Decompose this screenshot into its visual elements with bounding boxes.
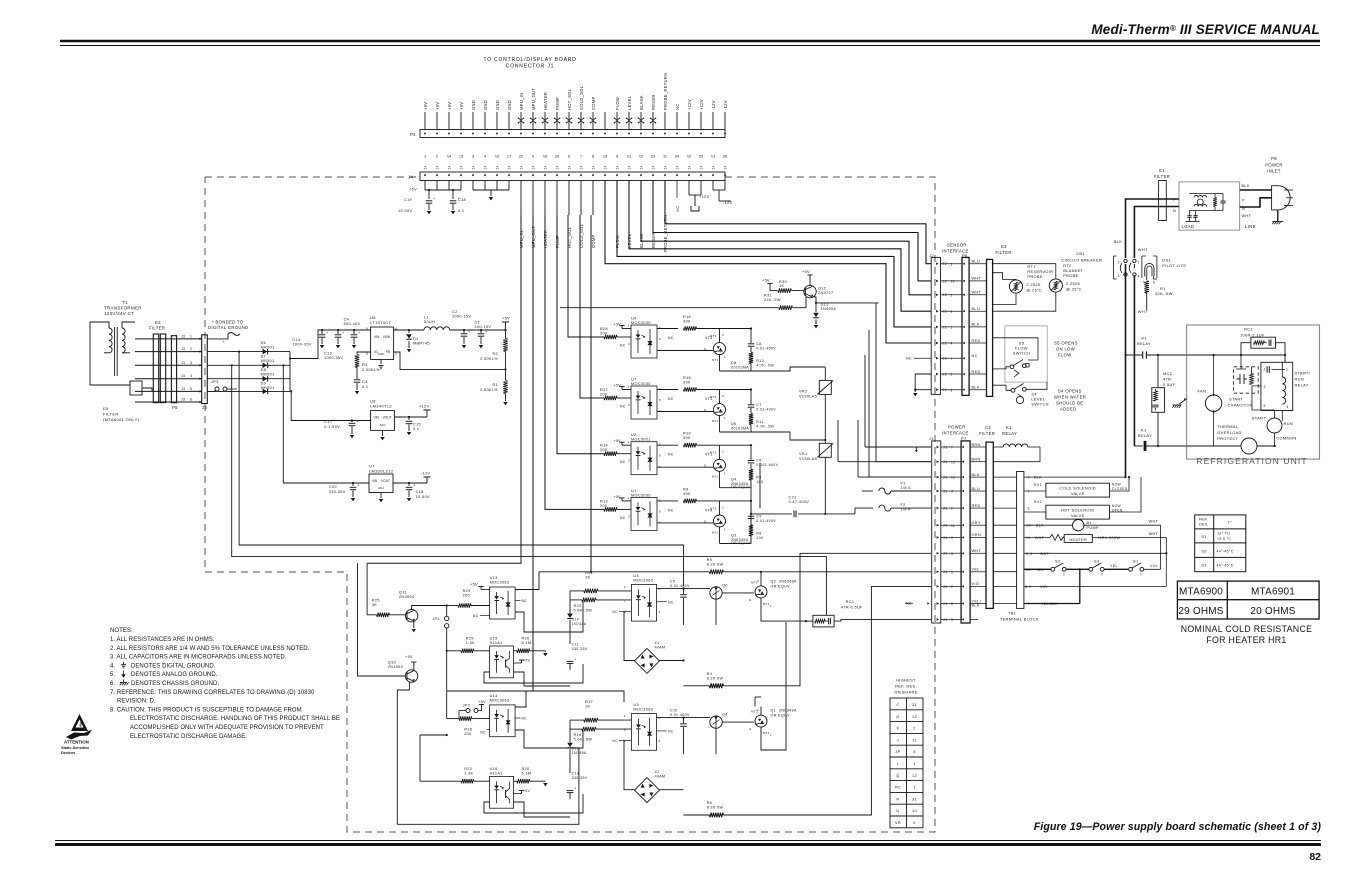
svg-text:FB: FB	[386, 350, 390, 354]
svg-text:+12V: +12V	[687, 99, 692, 110]
TB1 row 3,4 WHT	[993, 552, 1016, 554]
svg-text:NC: NC	[675, 103, 680, 110]
J3 pin 3 wire	[135, 364, 202, 366]
svg-text:12: 12	[912, 773, 917, 778]
svg-text:GND: GND	[495, 100, 500, 110]
connector P5	[171, 336, 176, 403]
svg-text:MT1: MT1	[763, 602, 770, 606]
svg-text:200: 200	[600, 448, 607, 452]
svg-text:LEVEL: LEVEL	[627, 95, 632, 110]
connector P2 pin 1 lead	[424, 112, 426, 130]
svg-text:J4: J4	[532, 165, 536, 169]
svg-text:C16: C16	[416, 490, 424, 494]
svg-text:ON LOW: ON LOW	[1056, 347, 1075, 352]
svg-text:K1: K1	[1141, 428, 1146, 433]
svg-text:FILTER: FILTER	[103, 412, 119, 417]
svg-text:FLOW: FLOW	[615, 97, 620, 110]
svg-text:+5V: +5V	[447, 102, 452, 110]
-12V pair from J4	[712, 181, 714, 191]
svg-text:J1: J1	[943, 524, 948, 528]
svg-text:6: 6	[1153, 281, 1155, 285]
svg-text:NC: NC	[906, 357, 912, 361]
svg-text:J1: J1	[943, 602, 948, 606]
svg-text:2.252K: 2.252K	[1066, 281, 1080, 286]
svg-text:11: 11	[912, 737, 917, 742]
snubber RC2	[1251, 337, 1276, 348]
svg-text:NC: NC	[473, 614, 479, 618]
svg-text:R9: R9	[683, 487, 689, 491]
svg-text:D8: D8	[731, 361, 736, 365]
svg-text:H11A1: H11A1	[490, 641, 503, 645]
svg-text:9: 9	[616, 155, 618, 159]
svg-text:SV1: SV1	[1034, 483, 1042, 487]
svg-text:44°-45°C: 44°-45°C	[1217, 564, 1234, 568]
connector P2 pin 25 lead	[712, 112, 714, 130]
svg-text:+12V: +12V	[699, 195, 709, 199]
connector P2 pin 12 lead	[556, 112, 558, 130]
svg-text:390: 390	[683, 320, 690, 324]
connector J4 pin 16 arrow	[604, 174, 606, 176]
svg-text:3: 3	[913, 749, 916, 754]
svg-text:J4: J4	[520, 165, 524, 169]
svg-text:6: 6	[659, 587, 661, 591]
svg-text:+: +	[574, 657, 576, 661]
svg-text:INLET: INLET	[1267, 169, 1281, 174]
svg-text:K1: K1	[1006, 425, 1012, 430]
svg-text:HOT SOLENOID: HOT SOLENOID	[1061, 508, 1095, 513]
svg-text:3: 3	[628, 403, 630, 407]
RC1 wiring	[806, 620, 813, 622]
svg-text:1K: 1K	[585, 575, 590, 579]
connector P2 pin 21 lead	[664, 112, 666, 130]
svg-text:BLK: BLK	[972, 323, 980, 327]
svg-text:R19: R19	[574, 733, 582, 737]
svg-text:+: +	[433, 197, 435, 201]
svg-text:-12V: -12V	[421, 472, 431, 476]
svg-text:3: 3	[190, 361, 192, 365]
connector J4 pin 8 arrow	[508, 174, 510, 176]
svg-text:SWITCH: SWITCH	[1031, 402, 1048, 407]
svg-text:Static-Sensitive: Static-Sensitive	[61, 746, 89, 750]
svg-text:R3: R3	[362, 363, 368, 367]
svg-text:1/8 A: 1/8 A	[901, 486, 912, 490]
svg-text:NOMINAL COLD RESISTANCE: NOMINAL COLD RESISTANCE	[1181, 624, 1313, 634]
svg-text:* BONDED TO: * BONDED TO	[212, 320, 244, 325]
svg-text:330-35V: 330-35V	[572, 776, 588, 780]
connector J4 pin 18 arrow	[628, 174, 630, 176]
svg-text:VR1: VR1	[799, 452, 807, 456]
svg-text:NC: NC	[612, 739, 618, 743]
U15 +5V pin	[521, 660, 523, 663]
svg-text:BLK: BLK	[972, 473, 980, 477]
feedback wire FB	[394, 352, 506, 369]
svg-text:OR EQUV: OR EQUV	[771, 584, 791, 588]
connector P2 pin 14 lead	[580, 112, 582, 130]
svg-text:T1: T1	[122, 300, 128, 305]
svg-text:J1: J1	[943, 489, 948, 493]
svg-text:200: 200	[464, 732, 471, 736]
connector J4 pin 12 arrow	[556, 174, 558, 176]
svg-text:1: 1	[951, 326, 953, 330]
svg-text:3: 3	[628, 459, 630, 463]
connector P2 pin 23 lead	[688, 112, 690, 130]
svg-text:JP1: JP1	[432, 617, 440, 621]
svg-text:120V/24V CT: 120V/24V CT	[104, 311, 134, 316]
svg-text:200: 200	[600, 393, 607, 397]
hot solenoid valve	[1046, 505, 1110, 519]
wire J2 6 J2 8 common ground	[915, 374, 931, 390]
U7 ADJ ground	[380, 493, 382, 499]
svg-text:VIN: VIN	[374, 335, 380, 339]
svg-text:50UH: 50UH	[424, 320, 435, 324]
svg-text:J4: J4	[436, 165, 440, 169]
svg-text:HEATER: HEATER	[543, 92, 548, 110]
svg-text:VR: VR	[895, 820, 901, 825]
svg-text:+5V: +5V	[478, 700, 486, 704]
svg-text:-12V: -12V	[723, 201, 733, 205]
svg-text:J3: J3	[181, 361, 185, 365]
wire mid rail B	[239, 352, 683, 586]
level switch S4 wiring	[993, 385, 1011, 390]
svg-text:+5V: +5V	[802, 270, 810, 274]
terminal block TB1	[1017, 472, 1024, 609]
J3 pin 1 wire	[135, 338, 202, 340]
connector J4 pin 6 arrow	[484, 174, 486, 176]
svg-text:3,4: 3,4	[1026, 552, 1032, 556]
svg-text:J4: J4	[724, 165, 728, 169]
svg-text:+5V: +5V	[614, 495, 622, 499]
svg-text:NC: NC	[620, 460, 626, 464]
svg-text:RED: RED	[972, 370, 981, 374]
connector J4	[420, 172, 725, 181]
connector J4 pin 13 arrow	[568, 174, 570, 176]
wire stair FLOW to J2	[617, 181, 931, 327]
svg-text:R26: R26	[522, 637, 530, 641]
note symbol chassis ground	[123, 680, 125, 683]
svg-text:+5V: +5V	[614, 384, 622, 388]
svg-text:B1: B1	[1087, 521, 1092, 525]
svg-text:2N6348A: 2N6348A	[779, 709, 797, 713]
J3 pin 4 wire	[135, 378, 202, 380]
wire stair BLANK to J2	[641, 181, 931, 295]
wire stair pin 19 to J2	[605, 181, 931, 344]
J2 pin J2 4	[936, 342, 938, 345]
svg-text:WHT: WHT	[1040, 552, 1050, 556]
thermistor RT1 wiring	[993, 273, 1016, 280]
flow switch S5 enclosure	[1005, 326, 1047, 382]
svg-text:V130LA5: V130LA5	[799, 457, 817, 461]
svg-text:MR501: MR501	[261, 359, 275, 363]
relay K1 contact top	[1126, 354, 1143, 356]
svg-text:2: 2	[757, 579, 759, 583]
connector J4 pin 2 arrow	[436, 174, 438, 176]
svg-text:WHEN WATER: WHEN WATER	[1054, 395, 1086, 400]
svg-text:4: 4	[659, 465, 661, 469]
svg-text:TERMINAL BLOCK: TERMINAL BLOCK	[1000, 617, 1039, 622]
svg-text:SHOULD BE: SHOULD BE	[1056, 401, 1083, 406]
svg-text:R21: R21	[585, 571, 593, 575]
svg-text:D8: D8	[261, 368, 267, 372]
connector P2 pin 13 lead	[568, 112, 570, 130]
svg-text:RUN: RUN	[1284, 421, 1293, 426]
connector J4 pin 19 arrow	[640, 174, 642, 176]
svg-text:D7: D7	[261, 355, 267, 359]
svg-text:2: 2	[951, 585, 953, 589]
svg-text:NC: NC	[522, 599, 528, 603]
connector J4 pin 1 arrow	[424, 174, 426, 176]
svg-text:RELAY: RELAY	[1002, 431, 1017, 436]
svg-text:2.00K1%: 2.00K1%	[480, 388, 498, 392]
svg-text:Q: Q	[896, 773, 899, 778]
svg-text:6: 6	[659, 326, 661, 330]
svg-text:0.1: 0.1	[362, 385, 368, 389]
svg-text:VSW: VSW	[383, 335, 390, 339]
svg-text:C4: C4	[985, 425, 991, 430]
J1 pin J1 4	[937, 490, 939, 493]
U14 output wires	[515, 691, 624, 707]
svg-text:4.: 4.	[110, 663, 115, 669]
svg-text:10-50V: 10-50V	[398, 209, 412, 213]
filter E1	[1159, 181, 1167, 221]
wire bus MPU_IN	[367, 215, 521, 563]
header rule thin	[60, 45, 1320, 47]
wire stair PROBE_RETURN to J2	[665, 181, 931, 264]
svg-text:MOC3030: MOC3030	[631, 321, 651, 325]
svg-text:R4: R4	[707, 672, 712, 676]
svg-text:44°-45°C: 44°-45°C	[1217, 549, 1234, 553]
svg-text:12: 12	[951, 476, 955, 480]
svg-text:2: 2	[913, 726, 916, 731]
wire Q12 emitter to J1 10	[876, 302, 878, 304]
bidirectional arrow symbol	[518, 118, 523, 123]
connector P2 pin 20 lead	[652, 112, 654, 130]
svg-text:RESER: RESER	[651, 232, 656, 248]
svg-text:C20: C20	[329, 485, 337, 489]
svg-text:NC: NC	[668, 453, 674, 457]
transistor Q10	[405, 670, 417, 682]
svg-text:3: 3	[628, 514, 630, 518]
connector P2 pin 8 lead	[508, 112, 510, 130]
svg-text:U2: U2	[631, 433, 637, 437]
connector P2 pin 6 lead	[484, 112, 486, 130]
svg-text:J1: J1	[943, 445, 948, 449]
resistor R1	[503, 381, 507, 394]
wire bus HOT_SOL	[568, 215, 604, 337]
wire row2 R6 to right	[684, 814, 710, 816]
U13 output wires	[515, 572, 539, 590]
svg-text:J3: J3	[181, 387, 185, 391]
bidirectional arrow symbol	[566, 118, 571, 123]
refrigeration chassis ground	[1179, 399, 1187, 404]
svg-text:4: 4	[659, 739, 661, 743]
pump motor B1	[1073, 520, 1084, 531]
svg-text:3: 3	[628, 342, 630, 346]
svg-text:U7: U7	[631, 378, 637, 382]
svg-text:WHT: WHT	[1149, 520, 1159, 524]
power inlet chassis ground	[1277, 210, 1279, 221]
svg-text:0.01-400V: 0.01-400V	[670, 584, 690, 588]
svg-text:C11: C11	[572, 642, 579, 646]
svg-text:S4 OPENS: S4 OPENS	[1058, 389, 1082, 394]
svg-text:J4: J4	[676, 165, 680, 169]
wire relay pins to start	[1252, 409, 1275, 411]
svg-text:NC: NC	[620, 344, 626, 348]
connector P2 pin 15 lead	[592, 112, 594, 130]
svg-text:R24: R24	[463, 589, 471, 593]
svg-text:J3: J3	[181, 398, 185, 402]
svg-text:MT2: MT2	[710, 395, 717, 399]
svg-text:+: +	[468, 330, 470, 334]
svg-text:U16: U16	[490, 767, 498, 771]
TB1 row 8,9 VIO	[993, 585, 1016, 587]
svg-text:1: 1	[724, 472, 726, 476]
svg-text:J4: J4	[484, 165, 488, 169]
wire CB1 to K1 contacts	[1125, 264, 1127, 477]
connector J4 pin 24 arrow	[700, 174, 702, 176]
svg-text:J1: J1	[943, 476, 948, 480]
thermal overload protector	[1241, 438, 1257, 454]
svg-text:E2: E2	[155, 320, 161, 325]
svg-text:1: 1	[628, 385, 630, 389]
svg-text:0.01-400V: 0.01-400V	[670, 713, 690, 717]
svg-text:R16: R16	[683, 315, 691, 319]
svg-text:1: 1	[1138, 261, 1140, 265]
svg-text:82: 82	[1309, 851, 1321, 863]
svg-text:MC1: MC1	[1163, 371, 1172, 376]
svg-text:+: +	[326, 331, 328, 335]
bridge Z1 wiring	[624, 611, 635, 660]
svg-text:22: 22	[519, 155, 523, 159]
svg-text:J2: J2	[943, 388, 948, 392]
svg-text:MPU_OUT: MPU_OUT	[531, 88, 536, 110]
wire right loop WHT	[1160, 525, 1162, 569]
svg-text:P7: P7	[961, 436, 967, 441]
svg-text:D1: D1	[413, 337, 419, 341]
svg-text:LT1074CT: LT1074CT	[370, 320, 392, 325]
Q11 emitter ground	[413, 622, 415, 629]
svg-text:FILTER: FILTER	[996, 250, 1012, 255]
svg-text:NC: NC	[675, 206, 680, 212]
svg-text:POWER: POWER	[948, 425, 966, 430]
J1 pin J1 6	[937, 570, 939, 573]
svg-text:BRN: BRN	[972, 458, 981, 462]
svg-text:Z2: Z2	[655, 770, 660, 774]
svg-text:MOC3063: MOC3063	[490, 699, 510, 703]
wire to J1 12	[869, 330, 931, 477]
svg-text:NC: NC	[480, 731, 486, 735]
svg-text:J4: J4	[460, 165, 464, 169]
svg-text:1: 1	[913, 785, 916, 790]
connector P2 pin 18 lead	[628, 112, 630, 130]
svg-text:390: 390	[683, 381, 690, 385]
svg-text:1: 1	[628, 324, 630, 328]
svg-text:6: 6	[659, 443, 661, 447]
connector J4 pin 22 arrow	[676, 174, 678, 176]
svg-text:1: 1	[424, 155, 426, 159]
J2 pin J2 6	[936, 373, 938, 376]
svg-text:BLANK: BLANK	[639, 95, 644, 110]
connector P2 pin 24 lead	[700, 112, 702, 130]
svg-text:HIGHEST: HIGHEST	[896, 678, 916, 683]
bidirectional arrow symbol	[542, 118, 547, 123]
svg-text:MOC3063: MOC3063	[490, 581, 510, 585]
svg-text:2: 2	[722, 450, 724, 454]
svg-text:MT1: MT1	[712, 475, 719, 479]
svg-text:T: T	[1140, 573, 1142, 577]
connector J4 pin 17 arrow	[616, 174, 618, 176]
svg-text:OR EQUV: OR EQUV	[771, 714, 791, 718]
svg-text:J2: J2	[943, 262, 948, 266]
svg-text:J2: J2	[943, 325, 948, 329]
svg-text:J1: J1	[943, 552, 948, 556]
J1 pin J1 9	[937, 536, 939, 539]
svg-text:C13: C13	[324, 352, 332, 356]
svg-text:10-50V: 10-50V	[416, 495, 430, 499]
svg-text:Q4: Q4	[722, 713, 728, 717]
svg-text:13: 13	[711, 155, 715, 159]
wire L1 to +5V	[450, 329, 506, 331]
svg-text:29 OHMS: 29 OHMS	[1178, 606, 1223, 617]
svg-text:MOC3021: MOC3021	[631, 438, 651, 442]
svg-text:R15: R15	[683, 376, 691, 380]
wire MC1 column	[1157, 355, 1159, 388]
svg-text:+5V: +5V	[614, 323, 622, 327]
J2 pin J2 9	[936, 310, 938, 313]
svg-text:GND: GND	[483, 100, 488, 110]
svg-text:5: 5	[1264, 404, 1266, 408]
connector P2 pin 19 lead	[640, 112, 642, 130]
svg-text:500-40V: 500-40V	[344, 322, 361, 326]
svg-text:C9: C9	[756, 514, 761, 518]
svg-text:CLOSED: CLOSED	[1112, 487, 1128, 491]
svg-text:+3° TO: +3° TO	[1217, 532, 1230, 536]
svg-text:3: 3	[951, 552, 953, 556]
relay K1 contact bottom	[1134, 445, 1143, 447]
svg-text:+12V: +12V	[699, 99, 704, 110]
svg-text:J4: J4	[472, 165, 476, 169]
svg-text:Figure 19—Power supply board s: Figure 19—Power supply board schematic (…	[1034, 821, 1322, 833]
svg-text:40AM: 40AM	[655, 775, 666, 779]
svg-text:ORN: ORN	[972, 533, 982, 537]
svg-text:5.1M: 5.1M	[522, 772, 532, 776]
svg-text:240-.5W: 240-.5W	[764, 298, 781, 302]
svg-text:D: D	[896, 714, 899, 719]
bridge Z2 wiring	[624, 741, 635, 790]
wire Q2 MT1 down	[761, 598, 806, 621]
power supply board outline dashed	[205, 177, 935, 832]
wire R5 row to J1 6	[723, 571, 931, 573]
svg-text:U5: U5	[633, 574, 639, 578]
svg-text:J3: J3	[202, 405, 207, 410]
svg-text:8.2K-5W: 8.2K-5W	[707, 806, 724, 810]
svg-text:WHT: WHT	[1138, 309, 1148, 314]
svg-text:D9: D9	[261, 382, 267, 386]
svg-text:RUN: RUN	[1295, 377, 1304, 382]
svg-text:WHT: WHT	[972, 291, 982, 295]
svg-text:DIGITAL GROUND: DIGITAL GROUND	[208, 325, 249, 330]
svg-text:DENOTES CHASSIS GROUND.: DENOTES CHASSIS GROUND.	[131, 681, 219, 687]
svg-text:VR2: VR2	[799, 390, 807, 394]
svg-text:6: 6	[951, 570, 953, 574]
svg-text:1: 1	[724, 416, 726, 420]
connector P2 pin 16 lead	[604, 112, 606, 130]
svg-text:MOC3063: MOC3063	[633, 708, 653, 712]
wire bus COLD_SOL	[580, 215, 604, 398]
svg-text:J2: J2	[943, 357, 948, 361]
svg-text:10: 10	[687, 155, 691, 159]
svg-text:J1: J1	[943, 536, 948, 540]
svg-text:C10: C10	[670, 709, 678, 713]
